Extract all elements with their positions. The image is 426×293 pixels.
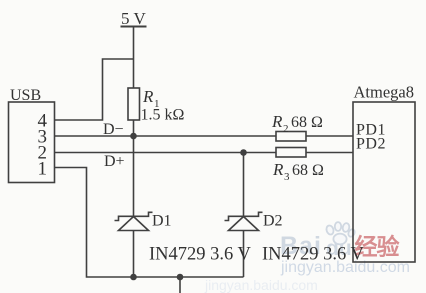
- wire pin4 branch: [55, 59, 134, 120]
- svg-text:D2: D2: [263, 213, 283, 230]
- wire D2 cathode up to D+ node: [243, 153, 245, 216]
- svg-text:D+: D+: [104, 153, 125, 170]
- USB connector box: [9, 102, 55, 183]
- watermark Baidu logo: [204, 222, 410, 293]
- svg-text:PD2: PD2: [356, 136, 386, 153]
- resistor R3: [276, 148, 306, 158]
- wire R2 to PD1: [306, 135, 353, 137]
- node D+ junction: [240, 149, 247, 156]
- watermark paw icon: [325, 222, 356, 244]
- resistor R2: [276, 132, 306, 142]
- svg-text:68 Ω: 68 Ω: [291, 114, 323, 131]
- wire R3 to PD2: [306, 152, 353, 154]
- wire D2 anode down: [243, 231, 245, 278]
- diode D2 zener: [225, 212, 263, 230]
- svg-text:jingyan.baidu.com: jingyan.baidu.com: [204, 277, 318, 293]
- svg-text:IN4729 3.6 V: IN4729 3.6 V: [149, 245, 252, 265]
- diode D1 zener: [115, 212, 153, 230]
- svg-text:R: R: [271, 112, 283, 131]
- wire D+ line pin2 to R3: [55, 152, 277, 154]
- 5V bar: [121, 26, 147, 28]
- svg-text:1: 1: [38, 159, 48, 180]
- svg-text:3: 3: [284, 171, 290, 183]
- resistor R1: [128, 88, 140, 120]
- svg-text:5 V: 5 V: [121, 9, 146, 28]
- wire R1 bottom through node to D1: [133, 120, 135, 216]
- svg-text:USB: USB: [10, 87, 41, 104]
- node gnd junction stub: [177, 274, 184, 281]
- wire ground stub: [179, 277, 181, 293]
- wire 5V rail to R1: [133, 27, 135, 89]
- node gnd junction D1: [130, 274, 137, 281]
- svg-text:D−: D−: [103, 121, 124, 138]
- svg-text:Atmega8: Atmega8: [354, 83, 414, 102]
- svg-text:D1: D1: [152, 213, 172, 230]
- svg-text:68 Ω: 68 Ω: [292, 162, 324, 179]
- wire D- line pin3 to R2: [55, 135, 277, 137]
- IC Atmega8 box: [353, 102, 415, 262]
- svg-text:1.5 kΩ: 1.5 kΩ: [141, 107, 185, 124]
- wire D1 anode down: [133, 231, 135, 278]
- svg-text:2: 2: [283, 123, 289, 135]
- svg-text:IN4729 3.6 V: IN4729 3.6 V: [262, 245, 365, 265]
- svg-text:R: R: [272, 160, 284, 179]
- svg-text:R: R: [142, 87, 154, 106]
- wire pin1 to ground bus: [55, 168, 244, 278]
- node D- junction: [130, 133, 137, 140]
